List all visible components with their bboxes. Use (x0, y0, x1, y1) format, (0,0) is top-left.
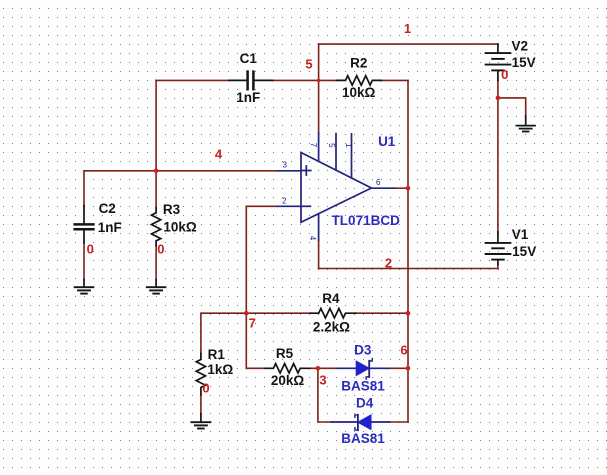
junction output node (406, 186, 411, 191)
svg-text:R2: R2 (350, 56, 367, 71)
svg-text:10kΩ: 10kΩ (163, 220, 197, 235)
svg-text:V1: V1 (512, 227, 529, 242)
svg-text:4: 4 (215, 147, 223, 162)
wire R5 left (246, 367, 265, 369)
svg-text:3: 3 (282, 161, 287, 170)
wire right vertical bus (407, 80, 409, 422)
battery V1 (486, 232, 511, 265)
svg-text:R3: R3 (163, 202, 181, 217)
svg-text:U1: U1 (378, 134, 396, 149)
svg-text:D4: D4 (356, 395, 374, 410)
svg-text:C2: C2 (99, 201, 116, 216)
resistor R5 (265, 364, 310, 373)
wire node 3 to D4 loop (318, 368, 331, 422)
capacitor C2 (75, 206, 94, 243)
wire R1 bottom to ground (200, 395, 202, 414)
junction node 5 (317, 79, 321, 83)
junction node 7 (244, 311, 249, 316)
ground under R1 (191, 414, 210, 429)
svg-text:6: 6 (376, 178, 381, 187)
wire node 5 / pin7 vertical (318, 44, 320, 133)
wire D4 right to bus (389, 421, 408, 423)
svg-text:1nF: 1nF (236, 90, 260, 105)
svg-text:7: 7 (309, 143, 318, 148)
wire R3 bottom to ground (155, 246, 157, 280)
wire D3 right (388, 367, 408, 369)
junction V2 ground (496, 96, 501, 101)
svg-text:3: 3 (319, 373, 326, 388)
wire node 4 horizontal (84, 170, 278, 172)
wire node 2 horizontal (319, 268, 498, 270)
svg-text:2: 2 (282, 197, 287, 206)
resistor R3 (152, 208, 161, 246)
junction R4 right (406, 311, 411, 316)
svg-text:0: 0 (202, 381, 209, 396)
svg-text:0: 0 (501, 67, 508, 82)
wire R3 top lead (155, 171, 157, 208)
junction node 3 (316, 366, 321, 371)
svg-text:1: 1 (344, 143, 353, 148)
wire C2 bottom to ground (83, 243, 85, 280)
wire node 7 to R1 (201, 313, 246, 353)
wire pin2 horizontal (246, 205, 277, 207)
ground under C2 (75, 280, 94, 294)
wire V2 ground branch (498, 98, 526, 116)
wire node 5 horizontal right (381, 79, 408, 81)
resistor R1 (196, 354, 205, 395)
svg-text:10kΩ: 10kΩ (342, 85, 376, 100)
ground near V2 (516, 116, 535, 132)
resistor R2 (337, 76, 382, 85)
svg-text:4: 4 (308, 236, 317, 241)
diode D4 (331, 415, 389, 430)
svg-text:0: 0 (157, 242, 164, 257)
wire pin2 to node 7 vertical (245, 206, 247, 368)
wire V1 bottom stub (497, 265, 499, 269)
wire pin4 down (318, 240, 320, 268)
svg-text:R4: R4 (322, 291, 340, 306)
svg-text:2.2kΩ: 2.2kΩ (313, 320, 350, 335)
op-amp U1 (277, 133, 394, 240)
junction D3 right (406, 366, 411, 371)
svg-text:0: 0 (87, 242, 94, 257)
svg-text:1kΩ: 1kΩ (207, 362, 233, 377)
wire node 1 top (319, 43, 498, 45)
diode D3 (337, 359, 388, 380)
svg-text:15V: 15V (512, 55, 536, 70)
svg-text:15V: 15V (512, 244, 536, 259)
svg-text:20kΩ: 20kΩ (271, 373, 305, 388)
junction node 4 (154, 169, 159, 174)
svg-text:2: 2 (385, 256, 392, 271)
battery V2 (486, 44, 511, 80)
wire R4 right (356, 312, 408, 314)
svg-text:C1: C1 (240, 51, 258, 66)
wire node 4 vertical (155, 80, 157, 170)
svg-text:5: 5 (305, 57, 312, 72)
svg-text:7: 7 (249, 316, 256, 331)
svg-text:TL071BCD: TL071BCD (332, 213, 401, 228)
svg-text:5: 5 (327, 143, 336, 148)
svg-text:6: 6 (400, 343, 407, 358)
capacitor C1 (229, 72, 273, 90)
svg-text:V2: V2 (512, 38, 529, 53)
wire V2 to V1 vertical (497, 80, 499, 232)
wire output pin6 (394, 187, 408, 189)
svg-text:1nF: 1nF (98, 220, 122, 235)
svg-text:D3: D3 (354, 343, 372, 358)
wire C2 top lead (83, 171, 85, 206)
svg-text:BAS81: BAS81 (341, 378, 385, 393)
svg-text:BAS81: BAS81 (341, 431, 385, 446)
svg-text:R1: R1 (208, 347, 226, 362)
resistor R4 (310, 309, 355, 318)
svg-text:1: 1 (404, 21, 411, 36)
svg-text:R5: R5 (276, 346, 294, 361)
ground under R3 (147, 280, 166, 294)
wire node 5 horizontal left (156, 79, 229, 81)
wire R5 right to node 3 (310, 367, 336, 369)
wire node 5 horizontal mid (273, 79, 337, 81)
wire R4 left (246, 312, 310, 314)
op-amp pin numbers (282, 143, 381, 241)
